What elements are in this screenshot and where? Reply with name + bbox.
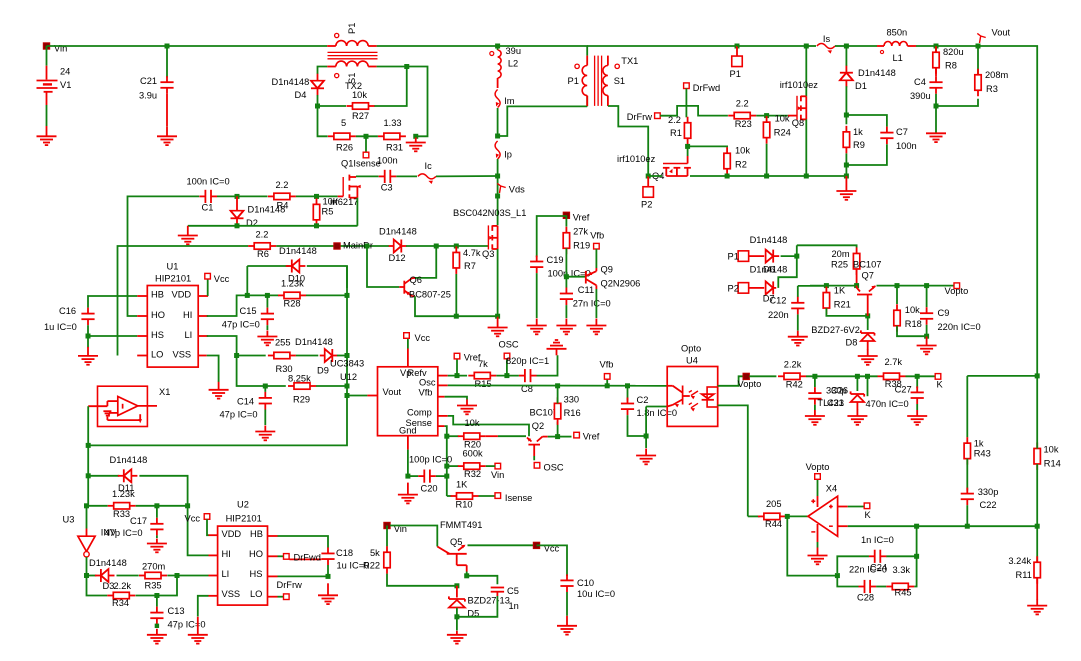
label Vopto X4 (806, 462, 830, 472)
capacitor C12 (791, 297, 804, 315)
wire X4 vee (817, 542, 819, 548)
label Q2 (532, 421, 544, 431)
label R35 (145, 581, 162, 591)
diode D6 (766, 250, 780, 263)
TL431 D shunt regulator (851, 391, 865, 402)
label C24 (870, 563, 887, 573)
wire R28 row (247, 294, 278, 296)
wire D5 to C5 bottom (457, 596, 498, 617)
svg-text:2.2: 2.2 (736, 99, 749, 109)
junction C27 (915, 374, 920, 379)
wire R8 top lead (935, 46, 937, 52)
svg-text:C9: C9 (938, 308, 950, 318)
label C7 (896, 127, 908, 137)
resistor R42 (778, 373, 806, 379)
wire VSS to ground U2 (198, 596, 209, 617)
label Vopto port (945, 286, 969, 296)
junction R5 top (314, 194, 319, 199)
wire to TX1 P1 (498, 106, 588, 136)
junction Q1Isense tap (364, 134, 369, 139)
svg-text:1.23k: 1.23k (281, 279, 304, 289)
label R44 (765, 519, 782, 529)
label 4.7k R7 (463, 248, 481, 258)
svg-text:C28: C28 (857, 592, 874, 602)
junction R8 top (934, 44, 939, 49)
wire R44 down (787, 516, 837, 575)
resistor R6 (248, 243, 276, 249)
junction top rail at L2 (495, 44, 500, 49)
wire C4 bottom (935, 94, 937, 134)
svg-text:Q8: Q8 (792, 118, 804, 128)
wire U12 Gnd (407, 450, 409, 477)
label Sense pin (406, 418, 432, 428)
capacitor C22 (961, 488, 974, 506)
ground C16 (78, 347, 98, 365)
svg-text:TX1: TX1 (621, 56, 638, 66)
label irf6217 (330, 197, 358, 207)
IC U12 UC3843 box (378, 367, 438, 436)
label D1 (855, 81, 867, 91)
svg-text:R45: R45 (895, 588, 912, 598)
label Comp pin (407, 408, 432, 418)
wire R45 to C24 riser (914, 556, 916, 586)
wire Q6 emitter down (415, 296, 498, 316)
resistor R44 (758, 513, 786, 519)
svg-text:C3: C3 (381, 183, 393, 193)
port DrFrw TX1 (655, 113, 661, 119)
pin label HO U2 (249, 549, 263, 559)
wire Vref port wire (558, 436, 572, 438)
resistor R33 (108, 503, 136, 509)
wire C28 to R45 (876, 586, 886, 588)
subcircuit X1 box (98, 386, 148, 426)
svg-text:D8: D8 (846, 338, 858, 348)
wire C15 top (266, 295, 268, 307)
ground C4 (926, 133, 946, 142)
wire Q7 emitter row (877, 285, 927, 287)
port DrFwd U2 (284, 554, 290, 560)
capacitor C20 (418, 470, 436, 483)
transistor Q6 BC807-25 (399, 278, 415, 296)
label R33 (113, 509, 130, 519)
junction R44 X4 (785, 514, 790, 519)
junction R43 bottom (965, 524, 970, 529)
svg-text:P1: P1 (728, 252, 739, 262)
svg-text:27n IC=0: 27n IC=0 (573, 299, 611, 309)
svg-text:C20: C20 (421, 484, 438, 494)
svg-text:D1n4148: D1n4148 (379, 227, 417, 237)
label U2 (237, 500, 249, 510)
label D1n4148 D2 (248, 205, 286, 215)
svg-text:HO: HO (249, 549, 263, 559)
label P2 in (728, 284, 739, 294)
svg-text:100n: 100n (896, 141, 917, 151)
wire C24 row left (837, 556, 869, 573)
junction Vin node 2 (385, 523, 390, 528)
label Vfb Q9 (590, 231, 604, 241)
label BZD27-13 (468, 596, 510, 606)
label D1n4148 D3 (89, 558, 127, 568)
wire C28 row left (837, 578, 858, 587)
resistor R1 (684, 117, 690, 145)
wire C14 bottom (264, 410, 266, 426)
ground C15 (257, 331, 277, 346)
wire Q8 source to bus (805, 119, 807, 176)
svg-text:Osc: Osc (419, 377, 436, 387)
label D10 (288, 274, 305, 284)
junction source row R7 (454, 314, 459, 319)
svg-text:208m: 208m (985, 70, 1009, 80)
junction R33 left (84, 503, 89, 508)
wire R32 left (447, 465, 459, 467)
label 1u IC=0 C18 (337, 561, 370, 571)
wire Q2 base OSC (533, 456, 535, 460)
label TX1 (621, 56, 638, 66)
port Vcc U2 (204, 514, 210, 520)
transistor Q7 BC107 (857, 286, 876, 316)
junction C23 (812, 374, 817, 379)
wire R26-R31 mid (356, 135, 378, 137)
svg-text:1k: 1k (853, 127, 863, 137)
node Vin marker 2 (384, 522, 390, 528)
junction R31 gnd (413, 134, 418, 139)
label R6 (257, 249, 269, 259)
diode D7 (766, 281, 777, 294)
port Vref Q2 (574, 432, 580, 438)
svg-text:BC107: BC107 (853, 260, 881, 270)
port DrFrw U2 (284, 594, 290, 600)
label Q6 (410, 275, 422, 285)
label U3 (63, 515, 75, 525)
wire top rail Q8 to Is (806, 45, 816, 47)
svg-text:HO: HO (151, 310, 165, 320)
svg-text:VSS: VSS (222, 589, 241, 599)
label 1u IC=0 C16 (44, 322, 77, 332)
label R14 (1044, 459, 1061, 469)
resistor R2 (724, 147, 730, 175)
label Vfb pin (419, 387, 433, 397)
zener D8 BZD27-6V2 (861, 330, 875, 341)
wire C20 right (436, 475, 447, 477)
label D6 (763, 265, 775, 275)
label R1 (670, 128, 682, 138)
wire R32 to port (486, 465, 495, 467)
wire X4 vcc (817, 479, 819, 496)
resistor R10 (451, 493, 479, 499)
label 39u (506, 46, 522, 56)
wire C24 row right (886, 555, 917, 557)
wire DrFrw jog (660, 106, 728, 116)
capacitor C18 (321, 547, 334, 565)
svg-text:5k: 5k (370, 548, 380, 558)
wire R23 to Q8 gate (756, 115, 788, 117)
junction D5 C28 row (454, 583, 459, 588)
label C19 (547, 255, 564, 265)
wire R19 bottom (565, 248, 567, 287)
svg-text:C27: C27 (895, 385, 912, 395)
port OSC top (504, 353, 510, 359)
svg-text:10k: 10k (352, 90, 367, 100)
svg-text:39u: 39u (506, 46, 522, 56)
wire D10 to x347 (307, 266, 347, 288)
transformer TX2 primary P1 (327, 33, 376, 46)
svg-text:3.9u: 3.9u (139, 91, 157, 101)
label 1K R10 (456, 480, 468, 490)
port OSC Q2 (534, 463, 540, 469)
wire Vin to Q5 (390, 526, 437, 547)
svg-text:1n: 1n (509, 601, 519, 611)
wire D11 to HI riser (139, 476, 187, 506)
resistor R43 (964, 437, 970, 465)
label Vin port (491, 470, 504, 480)
wire X4 plus to K (848, 506, 865, 508)
wire D4 to R26 corner (318, 95, 328, 136)
svg-text:R18: R18 (905, 319, 922, 329)
svg-text:R15: R15 (475, 379, 492, 389)
label 2.2 R4 (276, 180, 289, 190)
svg-text:V1: V1 (60, 80, 71, 90)
svg-text:R27: R27 (352, 111, 369, 121)
wire L1 to R8 (916, 45, 936, 47)
label L2 (508, 59, 518, 69)
junction x347 R29 (345, 384, 350, 389)
wire C12 top (798, 285, 827, 287)
svg-text:Vfb: Vfb (590, 231, 604, 241)
svg-text:U2: U2 (237, 500, 249, 510)
label 1k R9 (853, 127, 863, 137)
ground C10 (557, 616, 577, 635)
svg-text:7k: 7k (478, 359, 488, 369)
pin stubs U2 right (268, 536, 278, 597)
wire C17 lead (156, 506, 158, 518)
svg-text:C17: C17 (130, 516, 147, 526)
wire Q1 source to C3 (356, 175, 379, 177)
junction top rail at C21 (165, 44, 170, 49)
wire R44 input (748, 515, 760, 517)
port Vopto Q7 (954, 283, 960, 289)
label 10k R20 (465, 418, 480, 428)
wire R27 right vertical (374, 67, 407, 107)
junction C17 top (154, 503, 159, 508)
label C10 (577, 578, 594, 588)
wire R29 row (265, 385, 286, 387)
label Osc pin (419, 377, 436, 387)
transistor Q3 BSC042N03S_L1 (488, 225, 497, 249)
wire to C5 (467, 576, 498, 585)
wire top rail to TX1 (498, 46, 588, 56)
svg-text:1.8n IC=0: 1.8n IC=0 (637, 408, 678, 418)
wire C2 bottom (628, 415, 647, 436)
svg-text:HS: HS (151, 330, 164, 340)
svg-text:D1n4148: D1n4148 (279, 246, 317, 256)
wire C27 bottom (916, 404, 918, 410)
wire C7 bottom (846, 144, 887, 165)
transistor Q9 Q2N2906 (586, 268, 597, 289)
label HIP2101 (155, 274, 191, 284)
label DrFwd U2 (294, 553, 321, 563)
wire C14 top (264, 386, 266, 392)
svg-text:Vopto: Vopto (738, 379, 762, 389)
label D1n4148 D6 (750, 235, 788, 245)
resistor R22 (384, 546, 390, 574)
pin label HI (183, 310, 192, 320)
label 3.3k (893, 565, 911, 575)
label U4 (686, 356, 698, 366)
label 27k R19 (573, 227, 588, 237)
transistor Q1 irf6217 (338, 175, 361, 198)
wire D12 to Q3 gate (406, 245, 488, 247)
wire D3 to R35 (117, 575, 139, 577)
label 820p IC=1 (506, 356, 549, 366)
capacitor C11 (560, 288, 573, 306)
svg-text:Vfb: Vfb (419, 387, 433, 397)
transistor Q2 BC107 (527, 437, 548, 456)
wire Im to junction (497, 108, 499, 136)
svg-text:10k: 10k (735, 146, 750, 156)
transformer TX2 core (328, 52, 378, 58)
label R28 (284, 299, 301, 309)
svg-text:R33: R33 (113, 509, 130, 519)
label Q9 (601, 265, 613, 275)
svg-text:Opto: Opto (681, 344, 701, 354)
label BC807-25 (409, 290, 451, 300)
svg-text:L2: L2 (508, 59, 518, 69)
svg-text:100p IC=0: 100p IC=0 (409, 455, 452, 465)
wire opto pin2 down (645, 407, 647, 449)
capacitor C21 (160, 76, 173, 94)
svg-text:Q6: Q6 (410, 275, 422, 285)
wire Q9 emitter top (595, 249, 597, 268)
label R32 (464, 469, 481, 479)
label irf1010ez Q4 (617, 154, 656, 164)
junction D4 R27 (315, 104, 320, 109)
port Vin R32 (495, 463, 501, 469)
junction R28 C15 (265, 293, 270, 298)
label R29 (293, 395, 310, 405)
ground D8 (858, 350, 878, 365)
junction LI R30 R29 (234, 353, 239, 358)
junction R34 riser (175, 573, 180, 578)
pin label VDD U2 (222, 529, 242, 539)
resistor R19 (563, 227, 569, 255)
svg-text:Vin: Vin (491, 470, 504, 480)
wire Refv row (448, 375, 467, 377)
label HIP2101 (226, 514, 262, 524)
svg-text:S1: S1 (614, 76, 625, 86)
svg-text:C1: C1 (202, 203, 214, 213)
junction Q4 P2 (646, 174, 651, 179)
svg-text:820p IC=1: 820p IC=1 (506, 356, 549, 366)
wire R3 top (977, 46, 979, 75)
resistor R8 (933, 46, 939, 74)
wire U3 out (86, 557, 88, 576)
label K R38 (937, 379, 944, 389)
pin stubs U12 (367, 349, 447, 450)
junction C16 HS (86, 334, 91, 339)
label 7k (478, 359, 488, 369)
svg-text:330p: 330p (978, 487, 999, 497)
label S1 rotated (347, 73, 357, 84)
wire C3 to Ic (396, 175, 417, 177)
resistor R23 (728, 112, 756, 118)
junction R19 Q9 base (564, 274, 569, 279)
wire D1 top lead (845, 46, 847, 66)
svg-text:DrFwd: DrFwd (294, 553, 321, 563)
svg-text:R24: R24 (774, 128, 791, 138)
label R27 (352, 111, 369, 121)
svg-text:Vopto: Vopto (806, 462, 830, 472)
wire C13 lead (156, 596, 158, 607)
wire C17 bottom (156, 535, 158, 538)
junction X1 long wire (86, 443, 91, 448)
svg-text:R10: R10 (456, 500, 473, 510)
junction D5 bottom (454, 614, 459, 619)
wire R30 row left (237, 355, 266, 357)
diode D2 (231, 196, 244, 225)
junction R18 top (895, 283, 900, 288)
wire C1 to D2 (217, 195, 237, 197)
svg-text:2.2: 2.2 (668, 115, 681, 125)
svg-text:1n IC=0: 1n IC=0 (861, 535, 894, 545)
svg-text:1.33: 1.33 (384, 118, 402, 128)
label D2 (246, 218, 258, 228)
label R38 (885, 379, 902, 389)
label 47p IC=0 C17 (105, 528, 143, 538)
junction D12 Q6 (434, 244, 439, 249)
label 100n C3 (377, 156, 398, 166)
label R15 (475, 379, 492, 389)
IC U2 HIP2101 box (218, 526, 268, 605)
label 1K R21 (834, 286, 846, 296)
svg-text:100n IC=0: 100n IC=0 (187, 177, 230, 187)
svg-text:470n IC=0: 470n IC=0 (866, 399, 909, 409)
svg-text:UC3843: UC3843 (330, 359, 364, 369)
node Vopto marker (743, 373, 749, 379)
junction C9 top (924, 283, 929, 288)
wire D9 to x347 (337, 355, 347, 357)
svg-text:R26: R26 (336, 143, 353, 153)
label Vfb (600, 360, 614, 370)
capacitor C24 (869, 550, 887, 563)
junction D2 top (235, 194, 240, 199)
port Vfb Q9 (594, 243, 600, 249)
inductor L1 (877, 42, 916, 54)
diode D11 (118, 469, 138, 482)
capacitor C7 (880, 127, 893, 145)
svg-text:Vopto: Vopto (945, 286, 969, 296)
label P2 port (641, 200, 652, 210)
junction source row Q3 (495, 314, 500, 319)
svg-text:10u IC=0: 10u IC=0 (577, 589, 615, 599)
ground D2 rail (178, 226, 198, 245)
label 3.9u (139, 91, 157, 101)
label TX2 (345, 81, 362, 91)
lead P1 to D6 (749, 255, 765, 257)
label R23 (735, 119, 752, 129)
junction D1 top (844, 44, 849, 49)
label Q8 (792, 118, 804, 128)
label C21 (140, 76, 157, 86)
svg-text:Vref: Vref (573, 213, 590, 223)
svg-text:C23: C23 (827, 398, 844, 408)
svg-text:C18: C18 (336, 548, 353, 558)
label Vcc U2 (185, 514, 201, 524)
label R11 (1016, 570, 1032, 580)
label C16 (59, 306, 76, 316)
wire top rail C21 to TX2 (167, 45, 327, 47)
svg-text:C4: C4 (914, 77, 926, 87)
wire C9 bottom (926, 325, 928, 336)
